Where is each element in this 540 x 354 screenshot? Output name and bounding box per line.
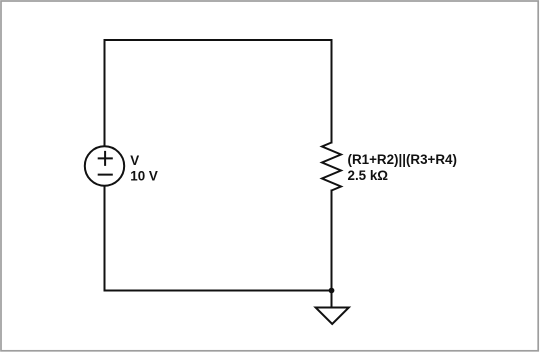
wire left upper (104, 40, 106, 146)
wire right upper (331, 40, 333, 143)
svg-text:(R1+R2)||(R3+R4): (R1+R2)||(R3+R4) (348, 152, 457, 167)
ground (316, 291, 349, 325)
resistor (R1+R2)||(R3+R4) (322, 143, 341, 191)
wire left lower (104, 186, 106, 291)
wire right lower (331, 191, 333, 291)
wire bottom (105, 290, 332, 292)
svg-text:2.5 kΩ: 2.5 kΩ (348, 168, 389, 183)
voltage source V (85, 146, 124, 185)
node junction (329, 288, 335, 294)
svg-text:V: V (130, 153, 139, 168)
wire top (105, 39, 332, 41)
svg-text:10 V: 10 V (130, 169, 158, 184)
